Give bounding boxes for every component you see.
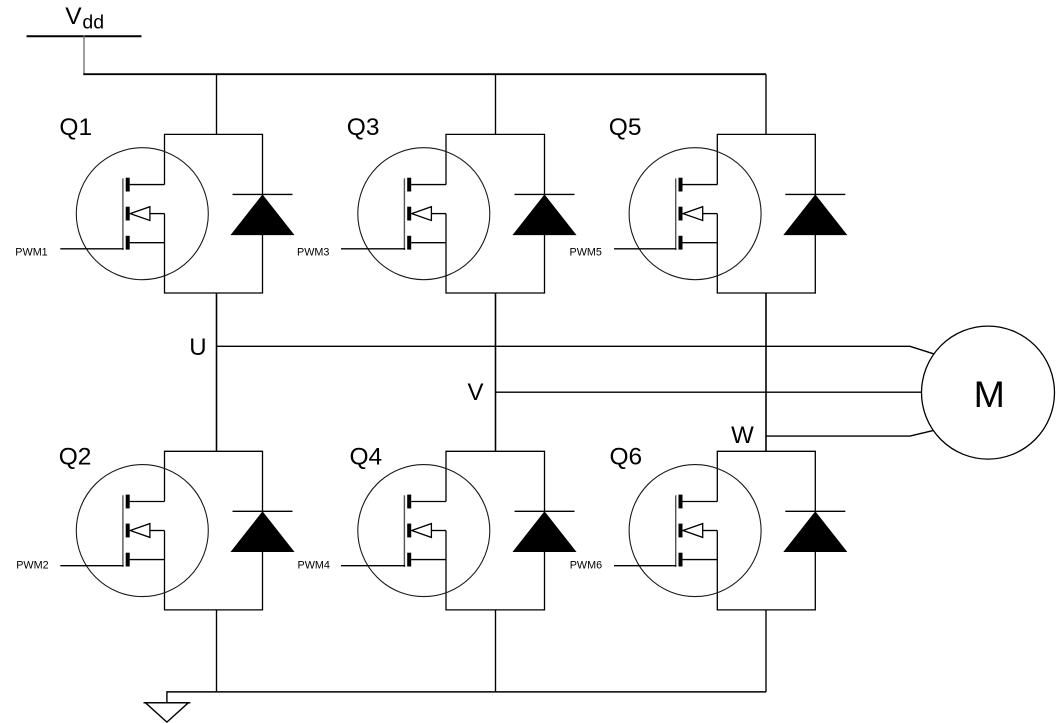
svg-text:PWM4: PWM4: [298, 560, 330, 572]
wire phase V node to Q4 drain: [495, 293, 497, 451]
svg-text:PWM1: PWM1: [15, 246, 47, 258]
wire supply bus to Q1 drain: [216, 74, 218, 134]
svg-text:Q6: Q6: [610, 444, 643, 471]
label PWM4: [298, 560, 330, 572]
svg-text:PWM5: PWM5: [570, 246, 602, 258]
wire PWM3 input to Q3 gate: [341, 248, 405, 250]
label Q1: [59, 114, 92, 141]
node V: [468, 379, 484, 406]
label PWM2: [16, 560, 48, 572]
diode body diode of Q6: [784, 511, 846, 551]
diode body diode of Q1: [232, 194, 294, 234]
svg-text:dd: dd: [82, 11, 104, 33]
wire phase U to motor: [217, 346, 934, 354]
label PWM1: [15, 246, 47, 258]
wire phase U node to Q2 drain: [216, 293, 218, 451]
wire Q4 source to ground bus: [495, 610, 497, 692]
label Q6: [610, 444, 643, 471]
svg-text:Q1: Q1: [59, 114, 92, 141]
wire Vdd stub: [83, 36, 85, 75]
svg-text:Q4: Q4: [350, 444, 383, 471]
wire PWM1 input to Q1 gate: [60, 248, 123, 250]
label Q2: [59, 444, 92, 471]
svg-text:Q5: Q5: [609, 114, 642, 141]
diode body diode of Q4: [514, 511, 576, 551]
transistor Q6 (N-MOSFET with package outline): [629, 451, 815, 610]
wire PWM6 input to Q6 gate: [614, 565, 676, 567]
wire supply bus to Q3 drain: [495, 74, 497, 134]
label PWM3: [297, 246, 329, 258]
wire PWM4 input to Q4 gate: [341, 565, 405, 567]
svg-text:Q3: Q3: [347, 114, 380, 141]
label Q3: [347, 114, 380, 141]
svg-text:M: M: [974, 373, 1005, 415]
node U: [189, 334, 206, 361]
transistor Q3 (N-MOSFET with package outline): [358, 134, 545, 293]
wire PWM2 input to Q2 gate: [60, 565, 123, 567]
transistor Q4 (N-MOSFET with package outline): [358, 451, 545, 610]
diode body diode of Q2: [232, 511, 294, 551]
wire Q5 source to phase W node: [765, 293, 767, 451]
wire Q3 source to phase V node: [495, 293, 497, 451]
transistor Q1 (N-MOSFET with package outline): [76, 134, 262, 293]
node W: [731, 422, 754, 449]
label Q5: [609, 114, 642, 141]
svg-text:V: V: [468, 379, 484, 406]
label Q4: [350, 444, 383, 471]
wire Q2 source to ground bus: [216, 610, 218, 692]
transistor Q5 (N-MOSFET with package outline): [629, 134, 815, 293]
ground: [144, 691, 191, 722]
transistor Q2 (N-MOSFET with package outline): [76, 451, 262, 610]
wire phase W to motor: [766, 431, 933, 437]
power symbol Vdd: [27, 35, 142, 37]
svg-text:U: U: [189, 334, 206, 361]
wire phase V to motor: [496, 391, 922, 393]
wire phase W node to Q6 drain: [765, 293, 767, 451]
wire top supply bus: [83, 73, 766, 75]
wire Q1 source to phase U node: [216, 293, 218, 451]
svg-text:PWM3: PWM3: [297, 246, 329, 258]
diode body diode of Q3: [514, 194, 576, 234]
svg-text:PWM2: PWM2: [16, 560, 48, 572]
svg-text:W: W: [731, 422, 754, 449]
svg-text:V: V: [65, 3, 82, 30]
motor M1: [922, 326, 1055, 459]
diode body diode of Q5: [784, 194, 846, 234]
wire PWM5 input to Q5 gate: [614, 248, 676, 250]
wire supply bus to Q5 drain: [765, 74, 767, 134]
label Vdd: [65, 3, 104, 34]
wire Q6 source to ground bus: [765, 610, 767, 692]
svg-text:PWM6: PWM6: [570, 560, 602, 572]
svg-text:Q2: Q2: [59, 444, 92, 471]
wire ground bus: [167, 691, 766, 693]
label PWM5: [570, 246, 602, 258]
label PWM6: [570, 560, 602, 572]
